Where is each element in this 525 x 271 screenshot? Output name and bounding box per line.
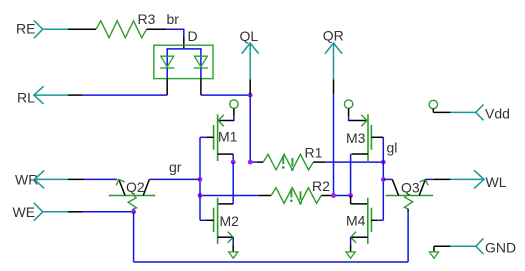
diode pair internal wiring [167,48,201,50]
resistor R1 [263,154,313,170]
diode pins below box [166,68,168,79]
wire Q2 collector to gr [149,178,200,180]
wire br vertical [183,29,185,37]
pmos M3 gate pin [371,136,383,138]
wire WE net [83,211,134,213]
pmos M1 source pin [233,108,235,116]
transistor Q3 base squiggle [404,195,412,209]
transistor Q2 emitter slant [119,179,125,195]
pmos M3 source pin [348,108,350,116]
wire RL net [83,94,167,96]
pmos M1 gate pin [207,136,214,138]
transistor Q3 base slant [392,179,398,195]
wire gl gate vertical [382,137,384,220]
wire bottom row [134,261,409,263]
nmos M2 source pin [218,236,234,238]
wire diode to QL node [201,94,250,96]
wire Q3 to WL [425,178,433,180]
svg-text:WE: WE [13,204,36,220]
svg-text:RE: RE [16,21,35,37]
svg-text:WL: WL [486,174,507,190]
nmos M4 drain pin [350,196,352,204]
nmos M4 channel [367,198,369,244]
transistor Q3 emitter slant [419,179,425,195]
svg-text:M4: M4 [346,213,366,229]
wire gl to Q3 [383,178,392,180]
pmos M3 source arrow [361,115,367,127]
R2 unresolved value marks [290,189,292,197]
junction dot diode/QL [248,93,253,98]
wire net br [166,28,183,30]
pmos M1 channel [217,114,219,161]
svg-text:gl: gl [387,139,398,155]
svg-text:M3: M3 [346,130,366,146]
nmos M2 channel [217,198,219,244]
svg-text:QL: QL [240,28,259,44]
svg-text:Vdd: Vdd [485,105,510,121]
transistor Q2 base squiggle [128,195,136,209]
nmos M2 source arrow [228,232,234,243]
pmos M1 drain pin [218,153,234,155]
diode pair D box [154,45,213,78]
svg-text:M2: M2 [220,213,240,229]
wire WR to Q2 [84,178,117,180]
nmos M4 gate bar [370,208,372,232]
nmos M2 gate pin [207,219,214,221]
wire Q3 squiggle down [407,212,409,262]
wire QL vertical net [249,95,251,162]
svg-text:Q3: Q3 [401,180,420,196]
svg-text:R3: R3 [138,11,156,27]
port WL (output) [451,178,484,180]
pmos M1 gate bar [213,125,215,150]
nmos M4 source pin [351,236,368,238]
junction dots R1 row [231,160,236,165]
ground below M2 [229,252,238,258]
diode D right [194,56,207,67]
junction dot WE/Q2 [131,209,136,214]
svg-text:gr: gr [169,159,182,175]
wire gr gate vertical [199,137,201,220]
transistor Q2 bar [109,195,155,197]
svg-text:GND: GND [485,240,516,256]
transistor Q3 emitter arrow [420,179,429,185]
svg-text:R2: R2 [312,178,330,194]
pmos M3 gate bar [370,125,372,150]
svg-text:br: br [167,11,180,27]
svg-text:M1: M1 [218,129,238,145]
transistor Q2 collector slant [143,179,149,195]
svg-text:Q2: Q2 [126,179,145,195]
ground below M4 [346,252,355,258]
svg-text:D: D [188,28,198,44]
junction dot gl [381,177,386,182]
diode D left [161,56,174,67]
svg-text:R1: R1 [305,145,323,161]
wire QL node to R1 [250,161,257,163]
nmos M4 source arrow [351,232,357,243]
wire QR vertical net [333,94,335,195]
pmos M1 source arrow [218,115,224,127]
nmos M4 gate pin [371,219,377,221]
svg-text:RL: RL [17,90,35,106]
nmos M2 drain pin [232,162,234,204]
wire R1 to gl node [325,161,383,163]
svg-text:QR: QR [323,28,344,44]
pmos M3 bulk circle [344,100,352,108]
junction dots R2 row [198,193,203,198]
resistor R2 [271,188,321,204]
wire gr node to R2 [200,195,259,197]
wire R2 to QR node [334,195,351,197]
pmos M3 channel [367,114,369,161]
pmos M3 drain pin [352,153,369,155]
R1 unresolved value marks [282,156,284,164]
pmos M1 bulk circle [230,100,238,108]
resistor R3 [96,21,147,38]
wire WE down [133,212,135,262]
nmos M2 gate bar [213,208,215,232]
transistor Q3 bar [386,195,434,197]
ground symbol at GND port [429,252,438,258]
transistor Q2 emitter arrow [116,179,125,185]
junction dot gr [198,177,203,182]
